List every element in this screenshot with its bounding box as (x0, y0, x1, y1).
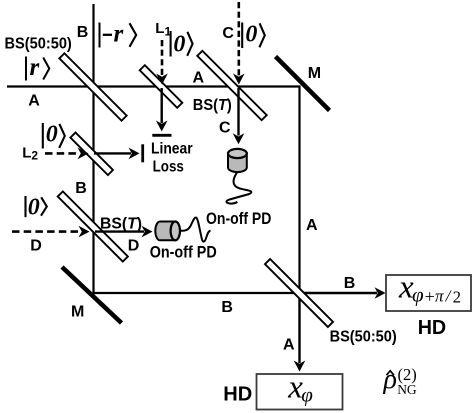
beam splitter BS(T) on C path (197, 51, 266, 120)
arrow: output beam B into homodyne box (300, 287, 386, 299)
svg-text:C: C (219, 119, 231, 136)
svg-text:L2: L2 (22, 144, 38, 162)
svg-text:NG: NG (397, 382, 417, 397)
svg-text:A: A (306, 217, 318, 234)
homodyne result box x_(phi+pi/2) (386, 270, 471, 311)
svg-text:C: C (222, 25, 234, 42)
on-off photodetector PD (C path, vertical cylinder) (228, 149, 247, 172)
svg-text:Linear: Linear (151, 140, 193, 157)
ket |0> vacuum (C) (242, 21, 265, 48)
svg-text:0: 0 (173, 31, 185, 57)
svg-text:φ: φ (412, 283, 424, 307)
svg-text:ρ: ρ (383, 364, 397, 395)
svg-text:M: M (71, 304, 84, 321)
svg-text:A: A (283, 336, 295, 353)
wire: vertical beam B (input -r) (92, 4, 94, 294)
arrow: L2 loss beam right into linear loss terminator (94, 148, 140, 160)
svg-text:BS(T): BS(T) (100, 215, 142, 232)
ket |0> vacuum (D) (26, 195, 47, 221)
svg-text:B: B (344, 275, 356, 292)
svg-text:r: r (30, 54, 40, 81)
svg-text:2: 2 (453, 287, 461, 306)
svg-text:0: 0 (245, 21, 257, 47)
svg-text:B: B (75, 180, 87, 197)
svg-text:On-off PD: On-off PD (206, 209, 271, 228)
dashed arrow: vacuum input D (12, 226, 90, 238)
beam splitter BS(50:50) bottom-right (265, 259, 333, 327)
svg-text:π: π (435, 287, 444, 306)
dashed arrow: vacuum input C (233, 2, 245, 85)
output state rho hat NG (2) (383, 364, 417, 397)
homodyne result box x_phi (257, 369, 343, 409)
svg-text:HD: HD (418, 317, 447, 339)
arrow: D beam right into on-off photodetector (95, 226, 153, 238)
beam splitter BS(T) on D path (58, 191, 128, 261)
svg-text:0: 0 (46, 121, 58, 147)
svg-text:φ: φ (301, 382, 313, 406)
svg-text:A: A (193, 70, 205, 87)
squiggle wire from C photodetector (226, 173, 251, 204)
svg-text:B: B (77, 24, 89, 41)
svg-text:BS(50:50): BS(50:50) (330, 329, 397, 346)
squiggle wire from D photodetector (181, 217, 211, 241)
ket |0> vacuum (L1) (171, 31, 193, 57)
svg-text:D: D (30, 237, 42, 254)
svg-text:BS(50:50): BS(50:50) (5, 36, 72, 53)
svg-text:+: + (425, 286, 435, 306)
beam splitter BS(50:50) top-left (59, 53, 126, 120)
dashed arrow: vacuum input L2 (45, 148, 89, 160)
arrow: output beam A into homodyne box (294, 293, 306, 372)
dashed arrow: vacuum input L1 (156, 40, 168, 85)
svg-text:On-off PD: On-off PD (150, 242, 217, 261)
arrow: L1 loss beam down into linear loss terminator (156, 88, 168, 132)
mirror M (bottom left) (62, 267, 122, 323)
beam splitter BS on L1 loss path (140, 65, 183, 108)
wire: horizontal beam A (input r) (7, 85, 300, 87)
terminator bar for L2 loss (141, 144, 144, 162)
svg-text:r: r (114, 21, 124, 48)
beam splitter BS on L2 loss path (70, 133, 113, 176)
ket |-r> input state (100, 21, 137, 48)
wire: right vertical beam A (mirror M to BS 50:50) (298, 86, 300, 294)
wire: bottom horizontal beam B (mirror M to BS 50:50) (93, 292, 300, 294)
svg-text:HD: HD (223, 382, 252, 405)
svg-text:L1: L1 (155, 20, 171, 39)
svg-text:Loss: Loss (153, 159, 184, 176)
svg-text:A: A (28, 93, 40, 110)
ket |0> vacuum (L2) (43, 121, 65, 148)
svg-text:B: B (221, 299, 233, 316)
svg-text:0: 0 (28, 195, 40, 221)
mirror M (top right) (276, 57, 330, 111)
svg-text:D: D (128, 237, 140, 254)
arrow: C beam down into on-off photodetector (233, 88, 245, 144)
svg-text:BS(T): BS(T) (193, 97, 232, 114)
svg-text:M: M (308, 65, 321, 82)
ket |r> input state (26, 54, 49, 81)
on-off photodetector PD (D path, horizontal cylinder) (155, 222, 180, 241)
terminator bar for L1 loss (152, 134, 171, 137)
